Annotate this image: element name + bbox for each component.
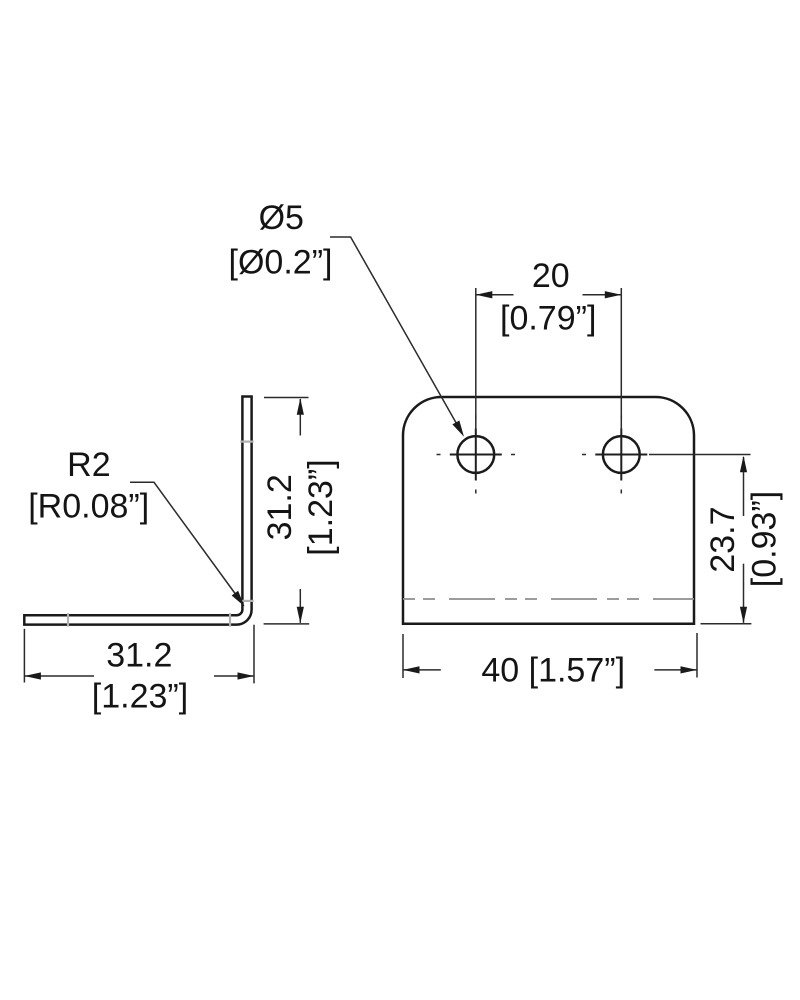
extension line left of horizontal 31.2 dimension: [23, 629, 25, 683]
extension line bottom of vertical 31.2 dimension: [264, 623, 310, 625]
center mark dot below hole right: [620, 490, 622, 494]
dimension line 20 right segment: [583, 294, 621, 296]
arrowhead right 40: [681, 666, 698, 673]
arrowhead down vertical 31.2: [297, 607, 304, 624]
center mark dot right of hole left: [511, 454, 515, 456]
extension line top of vertical 31.2 dimension: [264, 397, 309, 399]
dimension line horizontal 31.2 left segment: [25, 675, 94, 677]
extension line right of 40 dimension: [696, 633, 698, 678]
hole left: [457, 436, 494, 473]
bend tangent tick right on horizontal leg: [229, 613, 231, 626]
svg-text:31.2: 31.2: [261, 474, 299, 540]
dimension line 23.7 lower segment: [743, 564, 745, 623]
dimension line 20 left segment: [476, 294, 513, 296]
svg-text:[R0.08”]: [R0.08”]: [28, 487, 149, 525]
bend tangent tick left on horizontal leg: [67, 613, 69, 626]
center mark dot left of hole right: [582, 454, 586, 456]
center mark vertical hole left: [475, 429, 477, 481]
arrowhead right horizontal 31.2: [238, 672, 255, 679]
leader line for hole diameter: [330, 237, 462, 433]
extension line hole center for 23.7 dimension: [649, 454, 751, 456]
arrowhead left 40: [403, 666, 420, 673]
extension line left of 20 dimension: [475, 288, 477, 431]
arrowhead up vertical 31.2: [297, 398, 304, 415]
arrowhead up 23.7: [740, 456, 747, 473]
front view plate outline: [403, 397, 694, 624]
bend chain line on front view: [403, 598, 694, 600]
leader arrowhead R2: [232, 591, 248, 609]
center mark vertical hole right: [620, 429, 622, 481]
arrowhead left horizontal 31.2: [24, 672, 41, 679]
svg-text:40 [1.57”]: 40 [1.57”]: [481, 652, 625, 690]
hole right: [603, 436, 640, 473]
center mark horizontal hole left: [450, 454, 502, 456]
bend tangent tick upper on vertical leg: [240, 441, 253, 443]
center mark dot below hole left: [475, 490, 477, 494]
arrowhead right 20: [605, 291, 622, 298]
svg-text:[1.23”]: [1.23”]: [302, 459, 340, 555]
center mark dot above hole left: [475, 416, 477, 420]
leader arrowhead hole diameter: [452, 420, 467, 438]
center mark dot above hole right: [620, 416, 622, 420]
center mark dot left of hole left: [437, 454, 441, 456]
svg-text:[Ø0.2”]: [Ø0.2”]: [229, 243, 333, 281]
dimension line vertical 31.2 upper segment: [299, 399, 301, 436]
svg-text:Ø5: Ø5: [259, 199, 304, 237]
extension line right of horizontal 31.2 dimension: [253, 625, 255, 684]
dimension line horizontal 31.2 right segment: [214, 675, 254, 677]
svg-text:R2: R2: [67, 446, 110, 484]
bend tangent tick lower on vertical leg: [240, 600, 253, 602]
dimension line vertical 31.2 lower segment: [299, 589, 301, 623]
dimension line 23.7 upper segment: [743, 457, 745, 516]
svg-text:[0.93”]: [0.93”]: [745, 491, 783, 587]
dimension line 40 left segment: [404, 669, 441, 671]
extension line bottom for 23.7 dimension: [701, 623, 752, 625]
svg-text:23.7: 23.7: [704, 507, 742, 573]
svg-text:20: 20: [532, 257, 570, 295]
extension line right of 20 dimension: [620, 288, 622, 431]
arrowhead left 20: [476, 291, 493, 298]
arrowhead down 23.7: [740, 607, 747, 624]
svg-text:31.2: 31.2: [106, 637, 172, 675]
center mark horizontal hole right: [595, 454, 647, 456]
svg-text:[1.23”]: [1.23”]: [92, 678, 188, 716]
svg-text:[0.79”]: [0.79”]: [500, 300, 596, 338]
leader line for R2: [130, 482, 242, 603]
dimension line 40 right segment: [654, 669, 696, 671]
extension line left of 40 dimension: [402, 634, 404, 678]
side view L-profile outline: [24, 397, 251, 625]
